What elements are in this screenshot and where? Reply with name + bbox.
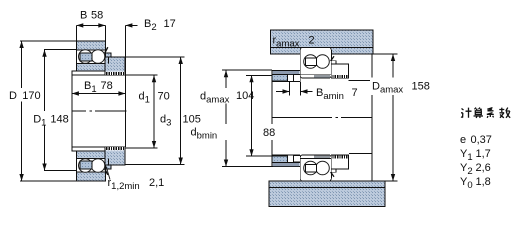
cage (right top) (306, 58, 317, 66)
D_amax top extension (373, 53, 398, 55)
outer ring bottom section body (77, 151, 106, 181)
D_amax bottom extension (385, 180, 398, 182)
B dimension line (76, 24, 105, 26)
inner ring thread serration (right top) (315, 75, 329, 78)
lock nut block (top section) (105, 57, 125, 75)
d1 bottom extension (125, 147, 158, 149)
nut knurl line (top section) (108, 57, 110, 64)
B_amin extension left (289, 82, 291, 96)
adapter sleeve strip (bottom section) (72, 147, 125, 151)
washer tab (right top) (331, 61, 336, 64)
housing bore line (top band) (271, 46, 374, 48)
lock washer tab (bottom section) (105, 165, 111, 169)
label D amax 158 (370, 78, 430, 96)
B arrows (76, 23, 105, 27)
inner ring thread serration (right bottom) (315, 155, 329, 158)
d1 dimension line (153, 75, 155, 148)
char 系 (487, 108, 494, 118)
d_bmin dimension line (251, 75, 253, 156)
ball row 1 (top section) (79, 50, 93, 64)
sleeve thread band (right bottom) (272, 163, 300, 167)
ball (right bottom, row2) (316, 161, 330, 175)
r leader line (106, 167, 110, 180)
shaft abutment collar (right bottom) (272, 156, 287, 163)
bearing box (right view bottom) (300, 155, 331, 181)
bent tab mark (right top) (331, 56, 334, 61)
thread serrations (bottom section) (106, 147, 125, 151)
outer ring top section body (77, 41, 106, 71)
cage (top section) (80, 53, 92, 61)
B2 outside arrow + tail (125, 24, 137, 26)
B1 dimension line (72, 93, 126, 95)
D bottom extension (20, 180, 76, 182)
thread serrations under nut (right top) (332, 75, 348, 78)
B_amin extension right (300, 82, 302, 96)
svg-text:104: 104 (236, 90, 254, 102)
lock nut block (bottom section) (105, 147, 125, 165)
title 计算系数 (461, 108, 510, 118)
label d bmin 88 (189, 124, 278, 142)
lock nut (right bottom) (331, 155, 348, 169)
B extension line right (104, 25, 106, 41)
D1 top extension (44, 49, 76, 51)
ball (right top, row1) (304, 55, 318, 69)
thread serrations under nut (top section) (106, 72, 125, 76)
housing bottom block (269, 181, 385, 206)
bearing box (right view top) (300, 48, 331, 79)
svg-text:D170: D170 (9, 90, 41, 102)
D1 dimension line (44, 50, 46, 171)
lock nut (right top) (331, 64, 348, 78)
shaft surface line (right bottom) (272, 154, 300, 156)
d_bmin bottom extension (246, 155, 272, 157)
bent tab mark (right bottom) (331, 172, 334, 177)
housing bore rear edge vertical (371, 54, 373, 181)
ball (right top, row2) (316, 55, 330, 69)
sleeve thread band left of bearing (right top) (272, 71, 300, 75)
D top extension (20, 40, 76, 42)
ball row 2 (bottom section) (91, 159, 105, 173)
d3 top extension (125, 56, 185, 58)
shaft end vertical (271, 71, 273, 167)
ball row 2 (top section) (91, 50, 105, 64)
char 数 (499, 108, 504, 118)
bore silhouette left edge (71, 71, 73, 147)
cage (right bottom) (306, 164, 317, 172)
bent tab mark (bottom section) (105, 169, 108, 175)
thread serrations (right bottom) (332, 155, 348, 158)
label D 170 (7, 88, 42, 102)
washer tab (right bottom) (331, 169, 336, 172)
d_amax dimension line (225, 70, 227, 166)
label d amax 104 (197, 88, 254, 106)
axis line left view (72, 110, 127, 112)
cage (bottom section) (80, 161, 92, 169)
D dimension line (21, 41, 23, 181)
axis line right view (272, 117, 372, 119)
adapter sleeve strip (top section) (72, 71, 125, 75)
d3 dimension line (180, 57, 182, 165)
bore silhouette right edge (124, 25, 126, 146)
B extension line left (75, 25, 77, 41)
svg-text:e0,37: e0,37 (460, 134, 492, 146)
ball row 1 (bottom section) (79, 159, 93, 173)
ball (right bottom, row1) (304, 161, 318, 175)
svg-text:B58: B58 (80, 10, 103, 22)
d1 top extension (125, 74, 158, 76)
housing shoulder face line (top) (349, 80, 373, 82)
nut knurl line (bottom section) (108, 159, 110, 166)
d_bmin top extension (246, 74, 272, 76)
svg-text:158: 158 (412, 81, 430, 93)
d_amax bottom extension (222, 166, 272, 168)
housing top block (271, 30, 374, 54)
d_amax top extension (222, 69, 272, 71)
d3 bottom extension (125, 164, 185, 166)
D_amax dimension line (392, 54, 394, 181)
housing bore line (bottom band) (269, 186, 385, 188)
sleeve small end (right top) (294, 75, 301, 82)
char 算 (475, 108, 482, 110)
B_amin arrows (276, 91, 290, 93)
shaft surface line (right top) (272, 80, 293, 82)
char 计 (461, 109, 464, 118)
shaft abutment collar (right top) (272, 75, 287, 82)
D1 bottom extension (44, 170, 76, 172)
housing shoulder face line (bottom) (349, 152, 372, 154)
label D1 148 (32, 111, 72, 129)
lock washer tab (top section) (105, 53, 111, 57)
bent tab mark (top section) (105, 47, 108, 53)
svg-text:88: 88 (263, 127, 275, 139)
sleeve small end (right bottom) (294, 155, 301, 162)
